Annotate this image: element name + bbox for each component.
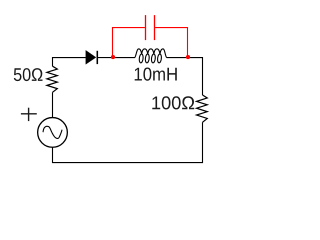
wire inductor to node B: [167, 57, 188, 59]
capacitor C1 right plate (red): [154, 15, 156, 40]
source V1 sine wave: [43, 126, 62, 138]
wire right down, bottom, up to source: [53, 122, 203, 162]
plus sign of source: [21, 108, 37, 121]
resistor R2 100 ohm: [197, 95, 208, 122]
node B junction dot: [186, 55, 190, 59]
wire diode to node A: [97, 57, 113, 59]
diode D1 cathode bar: [96, 51, 98, 64]
wire top-left corner: [53, 58, 86, 67]
label 50 ohm: [14, 68, 43, 81]
label 10mH: [135, 68, 177, 81]
source V1 circle: [38, 118, 68, 148]
inductor L1 10mH: [135, 49, 168, 63]
red wire node A up to capacitor: [113, 28, 145, 58]
wire node A to inductor: [113, 57, 135, 59]
resistor R1 50 ohm: [47, 66, 57, 92]
label 100 ohm: [152, 96, 194, 109]
diode D1 triangle: [86, 50, 96, 64]
node A junction dot: [111, 55, 115, 59]
wire source to resistor R1: [52, 92, 54, 117]
wire node B to top-right corner and down: [187, 58, 202, 95]
capacitor C1 left plate (red): [145, 15, 147, 40]
red wire capacitor to node B: [155, 28, 187, 58]
